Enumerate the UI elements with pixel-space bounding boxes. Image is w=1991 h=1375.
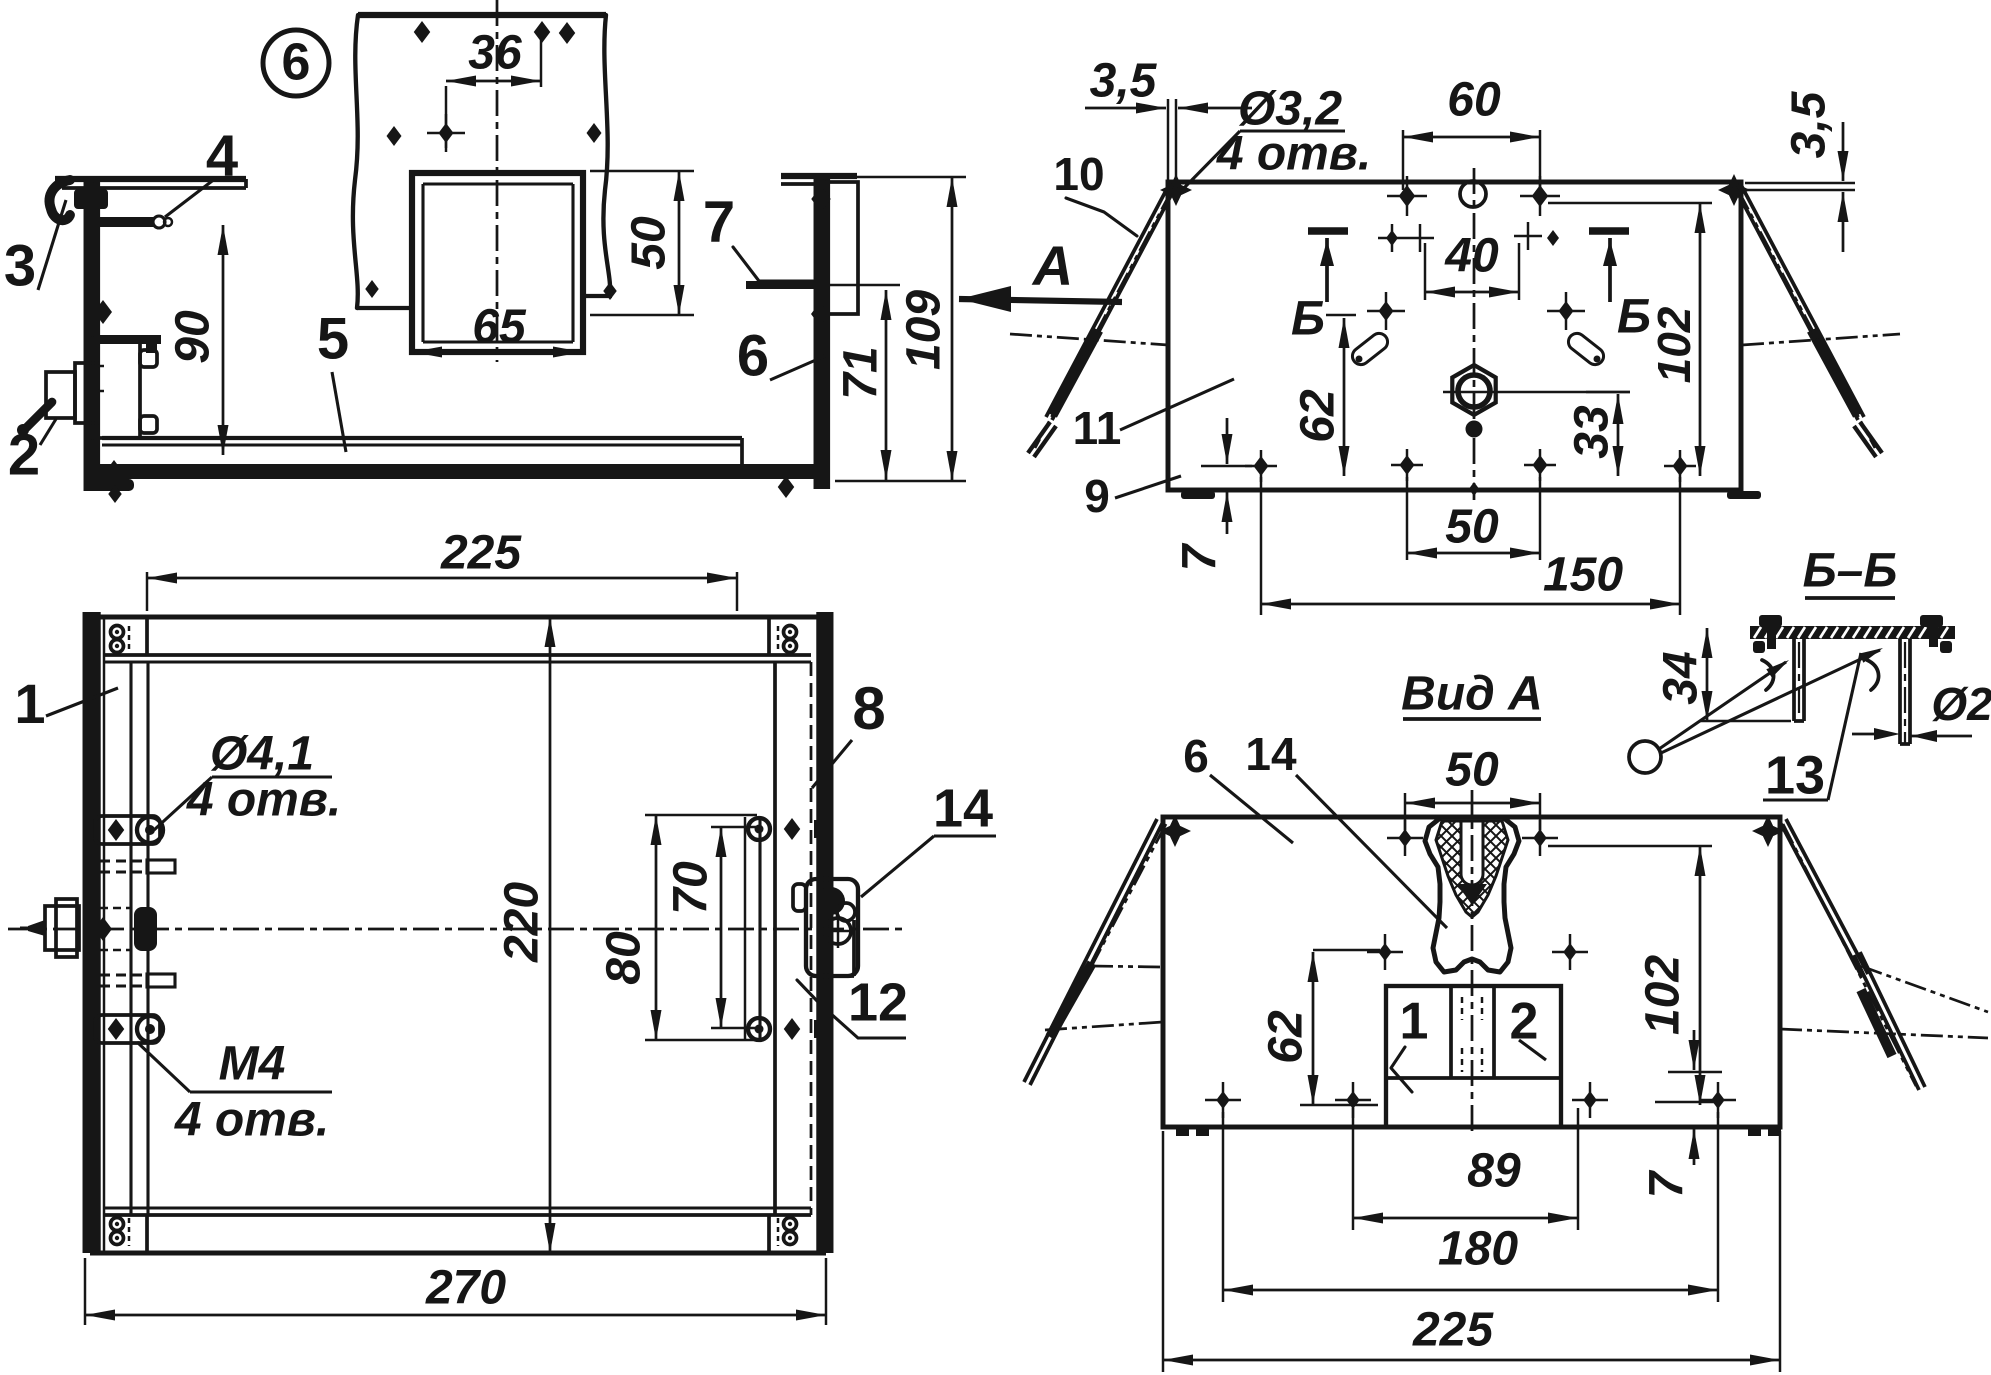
svg-text:62: 62 bbox=[1260, 1010, 1313, 1064]
svg-text:10: 10 bbox=[1053, 148, 1104, 200]
svg-text:5: 5 bbox=[317, 306, 349, 371]
svg-text:225: 225 bbox=[440, 527, 522, 580]
svg-text:Б: Б bbox=[1291, 293, 1325, 346]
svg-text:220: 220 bbox=[496, 882, 549, 963]
svg-text:36: 36 bbox=[468, 27, 522, 80]
svg-text:50: 50 bbox=[1445, 744, 1499, 797]
svg-text:6: 6 bbox=[282, 34, 311, 92]
svg-text:225: 225 bbox=[1412, 1304, 1494, 1357]
svg-text:3,5: 3,5 bbox=[1090, 55, 1158, 108]
svg-text:Вид А: Вид А bbox=[1401, 668, 1543, 721]
svg-text:6: 6 bbox=[1183, 730, 1209, 782]
svg-text:80: 80 bbox=[598, 931, 651, 985]
svg-text:12: 12 bbox=[848, 972, 908, 1032]
svg-text:7: 7 bbox=[1641, 1169, 1694, 1198]
svg-text:71: 71 bbox=[835, 346, 888, 399]
svg-text:Б–Б: Б–Б bbox=[1803, 545, 1898, 598]
svg-text:102: 102 bbox=[1648, 306, 1700, 383]
svg-text:34: 34 bbox=[1655, 651, 1708, 704]
svg-text:А: А bbox=[1031, 234, 1073, 297]
svg-text:109: 109 bbox=[898, 290, 951, 370]
svg-text:70: 70 bbox=[665, 861, 718, 915]
svg-text:4 отв.: 4 отв. bbox=[174, 1094, 329, 1147]
svg-text:180: 180 bbox=[1438, 1223, 1518, 1276]
svg-text:102: 102 bbox=[1637, 955, 1690, 1035]
svg-text:65: 65 bbox=[472, 301, 527, 354]
svg-text:2: 2 bbox=[8, 422, 40, 487]
svg-text:Ø2: Ø2 bbox=[1931, 678, 1991, 730]
svg-text:9: 9 bbox=[1084, 470, 1110, 522]
svg-text:13: 13 bbox=[1765, 745, 1825, 805]
svg-text:М4: М4 bbox=[219, 1038, 286, 1091]
svg-text:270: 270 bbox=[425, 1262, 506, 1315]
svg-text:90: 90 bbox=[167, 310, 220, 364]
svg-text:3,5: 3,5 bbox=[1783, 90, 1836, 158]
svg-text:50: 50 bbox=[1445, 501, 1499, 554]
svg-text:3: 3 bbox=[4, 233, 36, 298]
svg-text:1: 1 bbox=[14, 672, 45, 735]
svg-text:89: 89 bbox=[1467, 1145, 1521, 1198]
svg-text:4 отв.: 4 отв. bbox=[1216, 128, 1371, 181]
svg-text:14: 14 bbox=[933, 778, 993, 838]
svg-text:150: 150 bbox=[1543, 549, 1623, 602]
svg-text:33: 33 bbox=[1566, 405, 1619, 459]
svg-text:14: 14 bbox=[1245, 728, 1297, 780]
svg-text:11: 11 bbox=[1073, 402, 1122, 454]
svg-text:Б: Б bbox=[1617, 291, 1651, 344]
svg-text:1: 1 bbox=[1400, 993, 1429, 1051]
svg-text:40: 40 bbox=[1444, 230, 1499, 283]
svg-text:62: 62 bbox=[1292, 389, 1345, 443]
svg-text:7: 7 bbox=[1174, 542, 1227, 571]
svg-text:4: 4 bbox=[206, 123, 238, 188]
svg-text:60: 60 bbox=[1447, 74, 1501, 127]
svg-text:8: 8 bbox=[852, 675, 885, 742]
svg-text:6: 6 bbox=[737, 323, 769, 388]
svg-text:50: 50 bbox=[623, 216, 676, 270]
svg-text:7: 7 bbox=[703, 189, 735, 254]
